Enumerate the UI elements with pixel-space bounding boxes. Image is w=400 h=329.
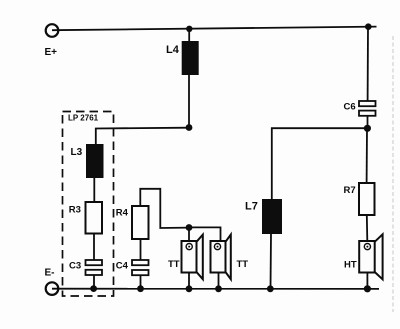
speaker TT2 (211, 235, 231, 280)
svg-text:LP 2761: LP 2761 (68, 114, 99, 123)
svg-text:L4: L4 (166, 44, 180, 56)
wire C4 to bus (140, 275, 142, 289)
node junction L7 bus (267, 285, 274, 292)
node junction TT feed (186, 224, 193, 231)
dashed box LP 2761 (63, 112, 114, 297)
terminal E+ (46, 24, 59, 37)
wire L4 bottom lead (188, 75, 190, 128)
svg-text:R7: R7 (344, 185, 356, 196)
terminal E- (46, 282, 59, 295)
wire top right to C6 (367, 27, 369, 101)
wire top bus (52, 27, 377, 31)
speaker HT (359, 234, 382, 279)
svg-text:L3: L3 (71, 147, 83, 158)
node junction top right (365, 23, 372, 30)
svg-text:E+: E+ (45, 47, 58, 58)
inductor L3 (86, 144, 104, 178)
wire L7 feed (272, 128, 364, 199)
wire node to TT1 (188, 228, 190, 242)
svg-text:E-: E- (45, 268, 55, 279)
resistor R7 (359, 183, 375, 215)
wire C3 to bus (93, 275, 95, 289)
svg-text:TT: TT (237, 259, 249, 270)
svg-text:R3: R3 (69, 205, 81, 216)
svg-text:C4: C4 (116, 261, 129, 272)
wire mid horizontal to L3 (96, 128, 189, 145)
wire TT1 to bus (188, 273, 190, 289)
wire R3 to C3 (93, 234, 95, 261)
svg-text:HT: HT (344, 260, 357, 271)
speaker TT1 (182, 235, 203, 280)
capacitor C3 (86, 260, 103, 275)
border artifact right edge (392, 36, 394, 312)
wire C6 to node (367, 116, 369, 129)
svg-text:R4: R4 (116, 208, 129, 219)
node junction C3 bus (90, 285, 97, 292)
wire TT2 to bus (218, 273, 220, 289)
resistor R3 (86, 202, 103, 234)
node junction C4 bus (137, 285, 144, 292)
node junction TT2 bus (215, 285, 222, 292)
wire R4 top bend to node (140, 189, 189, 228)
wire L4 top lead (188, 29, 190, 42)
node junction below top bus at L4 (186, 26, 192, 32)
node junction HT bus (364, 285, 371, 292)
svg-text:C3: C3 (69, 261, 81, 272)
svg-text:C6: C6 (344, 102, 356, 113)
inductor L7 (262, 199, 282, 234)
wire node to TT2 (189, 227, 221, 241)
wire node to R7 (366, 128, 368, 183)
svg-text:L7: L7 (245, 201, 258, 213)
resistor R4 (132, 206, 149, 239)
svg-text:TT: TT (168, 259, 180, 270)
wire L7 to bus (270, 234, 273, 289)
wire HT to bus (366, 273, 368, 289)
capacitor C4 (132, 260, 149, 275)
capacitor C6 (359, 101, 376, 116)
node junction TT1 bus (186, 285, 193, 292)
wire R7 to HT (366, 215, 369, 241)
wire bottom bus (52, 288, 379, 290)
wire L3 to R3 (93, 178, 95, 202)
inductor L4 (182, 41, 199, 75)
node junction below C6 (364, 125, 371, 132)
wire R4 to C4 (140, 239, 142, 260)
node junction mid left (186, 124, 193, 131)
